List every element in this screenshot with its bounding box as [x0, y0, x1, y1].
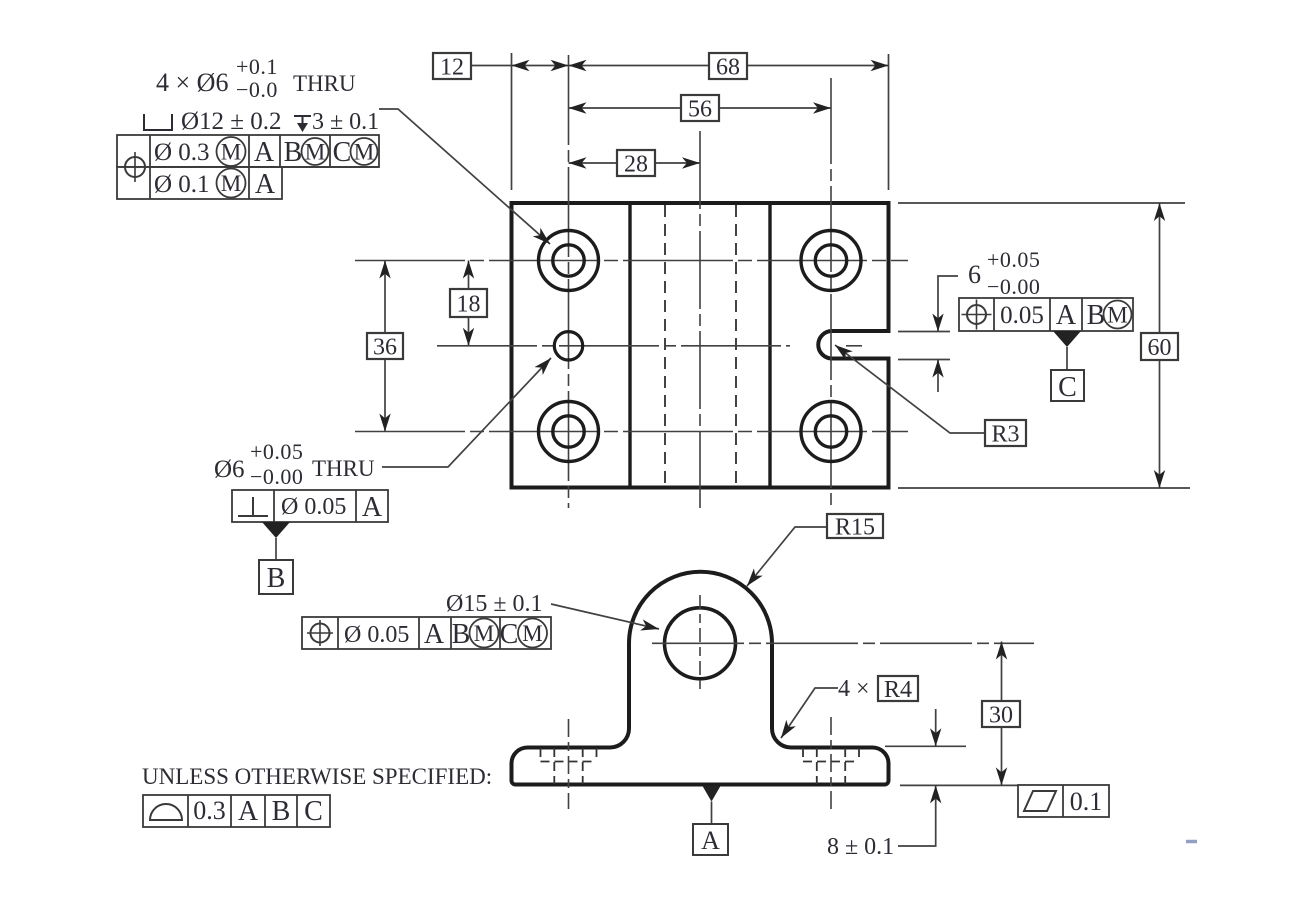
- svg-text:Ø 0.05: Ø 0.05: [281, 494, 346, 520]
- horizontal centerline top hole row y=260.5: [355, 260, 908, 262]
- depth symbol: [294, 116, 311, 132]
- note dia6 +0.05/-0.00 THRU: [214, 439, 375, 489]
- svg-text:56: 56: [688, 96, 712, 122]
- hidden dashed line (x=736): [735, 205, 737, 486]
- svg-text:A: A: [1056, 300, 1077, 331]
- svg-text:0.3: 0.3: [193, 796, 226, 825]
- svg-text:36: 36: [373, 334, 397, 360]
- svg-text:−0.00: −0.00: [250, 464, 303, 489]
- svg-text:UNLESS OTHERWISE SPECIFIED:: UNLESS OTHERWISE SPECIFIED:: [142, 764, 492, 789]
- svg-text:B: B: [284, 137, 303, 168]
- horizontal centerline middle row y=345.8: [437, 345, 790, 347]
- dimension 36: [379, 261, 390, 432]
- boss hole dia15: [665, 608, 736, 679]
- svg-text:Ø12 ± 0.2: Ø12 ± 0.2: [181, 108, 282, 135]
- datum B symbol: [259, 522, 293, 594]
- svg-text:−0.0: −0.0: [236, 77, 278, 102]
- svg-text:M: M: [474, 621, 494, 646]
- svg-text:A: A: [701, 826, 720, 855]
- svg-text:8 ± 0.1: 8 ± 0.1: [827, 834, 894, 860]
- svg-text:Ø 0.05: Ø 0.05: [344, 622, 409, 648]
- vertical centerline x=700: [699, 131, 701, 508]
- R3 leader and box: [832, 340, 986, 433]
- boss hole horizontal centerline extended right: [652, 642, 1034, 644]
- interior edge line right (x=770): [768, 203, 771, 488]
- datum A symbol: [693, 786, 728, 855]
- svg-text:A: A: [238, 796, 259, 827]
- hidden counterbore lines left hole: [541, 748, 597, 784]
- svg-text:Ø6: Ø6: [214, 456, 245, 483]
- svg-text:4 × Ø6: 4 × Ø6: [156, 68, 228, 97]
- bottom edge extension line right y=488: [898, 487, 1190, 489]
- svg-text:A: A: [362, 492, 383, 523]
- svg-text:A: A: [255, 169, 276, 200]
- svg-text:18: 18: [457, 291, 481, 317]
- slot top edge extension line: [898, 331, 950, 333]
- svg-text:THRU: THRU: [312, 456, 375, 481]
- svg-text:B: B: [1087, 300, 1106, 331]
- right hole centerline front view: [830, 717, 832, 809]
- svg-text:4 ×: 4 ×: [838, 676, 870, 702]
- svg-text:−0.00: −0.00: [987, 274, 1040, 299]
- svg-text:28: 28: [624, 151, 648, 177]
- svg-text:68: 68: [716, 54, 740, 80]
- leader to small hole: [382, 354, 555, 467]
- front view part outline: [512, 572, 889, 785]
- svg-text:C: C: [500, 619, 519, 650]
- counterbored hole bottom-left: [539, 402, 599, 462]
- dimension 12: [471, 60, 569, 71]
- counterbored hole bottom-right: [801, 402, 861, 462]
- dimension 18: [463, 261, 474, 346]
- svg-text:+0.05: +0.05: [987, 247, 1040, 272]
- vertical centerline x=568.5 (left hole column): [568, 55, 570, 508]
- svg-text:0.05: 0.05: [1000, 302, 1044, 329]
- R15 leader and box: [743, 527, 827, 590]
- svg-text:C: C: [304, 796, 323, 827]
- svg-text:12: 12: [440, 54, 464, 80]
- top view part outline with right-side slot: [512, 203, 889, 488]
- hidden dashed line (x=665): [664, 205, 666, 486]
- svg-text:60: 60: [1148, 335, 1172, 361]
- svg-text:M: M: [522, 621, 542, 646]
- text 6 +0.05/-0.00: [968, 247, 1040, 299]
- left hole centerline front view: [568, 719, 570, 809]
- small center hole (datum B hole): [554, 332, 582, 360]
- svg-text:C: C: [333, 137, 352, 168]
- svg-text:+0.05: +0.05: [250, 439, 303, 464]
- slot width dimension arrows and leader: [932, 276, 958, 392]
- counterbore symbol: [144, 114, 172, 130]
- svg-text:A: A: [254, 137, 275, 168]
- page mark: [1186, 840, 1197, 844]
- flatness feature control frame 0.1: [1018, 785, 1109, 817]
- dimension 68: [569, 60, 889, 71]
- svg-text:THRU: THRU: [293, 71, 356, 96]
- svg-text:R3: R3: [991, 421, 1019, 447]
- dimension 60: [1154, 203, 1165, 488]
- svg-text:B: B: [267, 563, 286, 594]
- dimension 28: [569, 157, 701, 168]
- svg-text:0.1: 0.1: [1070, 787, 1103, 816]
- svg-text:+0.1: +0.1: [236, 54, 278, 79]
- note 4 x dia6 +0.1/-0.0 THRU: [156, 54, 356, 102]
- leader to top-left counterbored hole: [379, 109, 554, 248]
- svg-text:Ø 0.1: Ø 0.1: [154, 171, 210, 198]
- interior edge line left (x=630): [628, 203, 631, 488]
- extension line x=888.5: [888, 54, 890, 190]
- feature control frame position 0.05 A B(M): [959, 298, 1133, 331]
- datum C symbol: [1051, 331, 1084, 403]
- base bottom edge extension line right: [900, 784, 1018, 786]
- svg-text:C: C: [1058, 372, 1077, 403]
- svg-text:A: A: [424, 619, 445, 650]
- svg-text:B: B: [452, 619, 471, 650]
- svg-text:3 ± 0.1: 3 ± 0.1: [312, 109, 379, 135]
- extension line x=511.5: [511, 53, 513, 190]
- svg-text:Ø 0.3: Ø 0.3: [154, 139, 210, 166]
- svg-text:Ø15 ± 0.1: Ø15 ± 0.1: [446, 591, 543, 617]
- hidden counterbore lines right hole: [803, 748, 859, 784]
- svg-text:M: M: [221, 171, 241, 196]
- vertical centerline x=831 (right hole column): [830, 78, 832, 508]
- svg-text:30: 30: [989, 702, 1013, 728]
- svg-text:R4: R4: [884, 677, 912, 703]
- top edge extension line right y=203: [898, 202, 1185, 204]
- slot bottom edge extension line: [898, 359, 950, 361]
- svg-text:B: B: [272, 796, 291, 827]
- dimension 56: [569, 102, 832, 113]
- svg-text:M: M: [305, 140, 325, 165]
- svg-text:M: M: [354, 140, 374, 165]
- horizontal centerline bottom hole row y=431.5: [355, 431, 908, 433]
- feature control frame position dia0.05 A B(M) C(M): [302, 617, 551, 650]
- svg-text:R15: R15: [835, 514, 875, 540]
- svg-text:M: M: [221, 140, 241, 165]
- feature control frame position dia0.3(M) A B(M) C(M) / dia0.1(M) A: [117, 135, 379, 200]
- general profile feature control frame 0.3 A B C: [143, 795, 330, 827]
- dimension 30: [996, 642, 1007, 786]
- svg-text:6: 6: [968, 260, 981, 289]
- base top edge extension line right: [885, 745, 966, 747]
- counterbored hole top-left: [539, 231, 599, 291]
- boss hole vertical centerline: [699, 595, 701, 691]
- dimension 8 +-0.1: [898, 709, 941, 846]
- counterbored hole top-right: [801, 231, 861, 291]
- svg-text:M: M: [1107, 303, 1127, 328]
- feature control frame perpendicularity dia0.05 A: [232, 490, 388, 523]
